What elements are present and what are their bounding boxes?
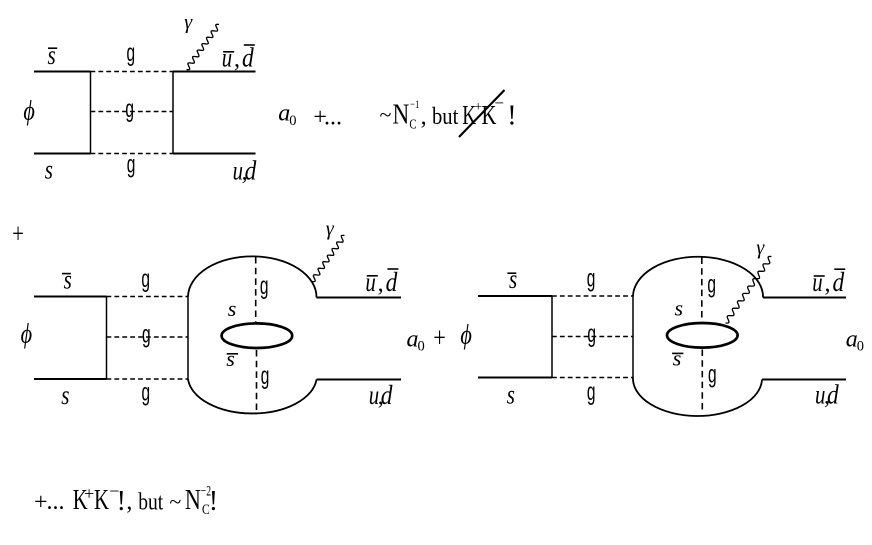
diagram3 label ubar dbar	[812, 267, 845, 297]
svg-text:N: N	[185, 484, 201, 516]
svg-text:g: g	[127, 151, 136, 179]
svg-text:γ: γ	[326, 218, 335, 240]
text plus dots after diagram1 a0	[313, 104, 342, 130]
svg-text:g: g	[587, 378, 596, 406]
diagram3 photon gamma wavy line from s sbar loop	[726, 256, 772, 323]
svg-text:d: d	[833, 267, 845, 297]
svg-text:s: s	[675, 296, 684, 321]
diagram3 quark line s incoming	[478, 377, 552, 379]
svg-text:d: d	[242, 43, 254, 73]
diagram3 gluon g3 dashed	[552, 377, 633, 379]
diagram1 label a0	[278, 101, 296, 129]
diagram1 label ubar dbar	[222, 43, 255, 73]
diagram1 quark line s incoming	[34, 153, 91, 155]
diagram3 quark line u d outgoing	[762, 379, 846, 381]
diagram2 label a0	[407, 326, 425, 354]
svg-text:,: ,	[421, 104, 427, 130]
svg-text:but: but	[432, 104, 459, 130]
diagram2 label u d	[369, 380, 393, 410]
svg-text:!: !	[507, 100, 516, 131]
svg-text:ϕ: ϕ	[23, 95, 35, 125]
svg-text:s: s	[228, 296, 237, 321]
svg-text:N: N	[393, 100, 410, 131]
svg-text:s: s	[45, 154, 53, 184]
diagram2 blob top arc	[188, 256, 317, 297]
svg-text:ϕ: ϕ	[460, 320, 472, 350]
svg-text:s: s	[226, 346, 235, 371]
svg-text:~: ~	[380, 102, 392, 127]
svg-text:C: C	[409, 117, 416, 132]
diagram3 label u d	[815, 380, 839, 410]
svg-text:0: 0	[418, 339, 425, 355]
svg-text:s: s	[61, 380, 69, 410]
svg-text:+: +	[34, 489, 48, 515]
diagram1 quark line ubar dbar outgoing	[173, 71, 256, 73]
diagram1 gluon g3 dashed	[91, 153, 174, 155]
diagram2 label sbar inner	[226, 346, 238, 371]
svg-text:g: g	[587, 265, 596, 293]
svg-text:K: K	[94, 484, 109, 516]
svg-text:!: !	[209, 486, 218, 517]
text NC^-1 but K+K- strike	[380, 94, 517, 133]
svg-text:u: u	[365, 267, 375, 297]
diagram3 label sbar	[507, 264, 517, 294]
svg-text:,: ,	[126, 489, 132, 515]
svg-text:g: g	[127, 39, 136, 67]
svg-text:+: +	[433, 323, 446, 354]
diagram2 gluon vertical dashed lower	[256, 350, 258, 415]
svg-text:g: g	[587, 320, 596, 348]
svg-text:...: ...	[324, 104, 342, 130]
svg-text:,: ,	[378, 271, 384, 297]
diagram2 gluon g1 dashed	[107, 296, 189, 298]
diagram2 label ubar dbar	[365, 267, 398, 297]
diagram1 quark line u d outgoing	[173, 153, 256, 155]
bottom text plus dots K+K- but NC^-2	[34, 481, 218, 518]
diagram1 gluon g2 dashed	[91, 111, 174, 113]
svg-text:+: +	[84, 483, 94, 503]
diagram1 a0 vertex vertical wire	[172, 72, 174, 154]
svg-text:+: +	[12, 219, 24, 250]
svg-text:g: g	[707, 271, 716, 299]
svg-text:u: u	[222, 43, 232, 73]
svg-text:~: ~	[169, 489, 181, 514]
diagram2 gluon g3 dashed	[107, 378, 189, 380]
svg-text:,: ,	[234, 47, 240, 73]
diagram2 label sbar	[62, 265, 72, 295]
diagram3 s sbar loop ellipse	[667, 323, 738, 348]
svg-text:s: s	[48, 40, 56, 70]
diagram3 phi vertex vertical wire	[551, 296, 553, 378]
svg-text:s: s	[507, 379, 515, 409]
svg-text:!: !	[117, 486, 126, 517]
svg-text:s: s	[509, 264, 517, 294]
svg-text:ϕ: ϕ	[21, 319, 33, 349]
svg-text:g: g	[142, 321, 151, 349]
diagram3 gluon g1 dashed	[552, 295, 633, 297]
diagram1 label u d	[233, 156, 257, 186]
diagram2 quark line sbar incoming	[34, 296, 107, 298]
diagram2 gluon vertical dashed upper	[255, 257, 257, 322]
svg-text:d: d	[245, 156, 257, 186]
svg-text:d: d	[381, 380, 393, 410]
diagram2 gluon g2 dashed	[107, 336, 189, 338]
svg-text:g: g	[261, 362, 270, 390]
diagram1 phi vertex vertical wire	[90, 72, 92, 154]
diagram1 quark line sbar incoming	[34, 71, 91, 73]
svg-text:γ: γ	[184, 11, 193, 33]
diagram3 gluon vertical dashed upper	[701, 258, 703, 323]
svg-text:g: g	[260, 272, 269, 300]
svg-text:,: ,	[825, 271, 831, 297]
diagram3 label a0	[846, 326, 864, 354]
diagram2 s sbar loop ellipse	[222, 323, 293, 348]
diagram2 blob bottom arc	[188, 379, 317, 413]
diagram3 gluon vertical dashed lower	[701, 350, 703, 414]
diagram3 blob left vertical wire	[632, 296, 634, 378]
svg-text:g: g	[708, 361, 717, 389]
svg-text:g: g	[125, 95, 134, 123]
svg-text:g: g	[142, 379, 151, 407]
svg-text:g: g	[141, 265, 150, 293]
svg-text:but: but	[138, 489, 163, 515]
diagram3 blob top arc	[633, 257, 763, 298]
diagram3 quark line sbar incoming	[478, 295, 552, 297]
diagram3 quark line ubar dbar outgoing	[763, 297, 846, 299]
svg-text:d: d	[386, 267, 398, 297]
diagram2 photon gamma wavy line	[312, 235, 345, 281]
svg-text:0: 0	[289, 113, 296, 129]
diagram2 phi vertex vertical wire	[106, 297, 108, 380]
diagram1 photon gamma wavy line	[187, 24, 220, 69]
diagram2 quark line u d outgoing	[317, 379, 402, 381]
diagram2 quark line s incoming	[34, 378, 107, 380]
diagram2 blob left vertical wire	[187, 297, 189, 380]
svg-text:d: d	[827, 380, 839, 410]
svg-text:u: u	[812, 267, 822, 297]
diagram3 gluon g2 dashed	[552, 336, 633, 338]
svg-text:−1: −1	[410, 97, 419, 111]
svg-text:s: s	[64, 265, 72, 295]
svg-text:γ: γ	[756, 237, 765, 259]
diagram3 label sbar inner	[672, 346, 683, 371]
svg-text:s: s	[673, 346, 682, 371]
svg-text:0: 0	[857, 339, 864, 355]
diagram1 gluon g1 dashed	[91, 71, 174, 73]
diagram3 blob bottom arc	[633, 378, 762, 416]
diagram1 label sbar	[48, 40, 58, 70]
svg-text:...: ...	[47, 489, 65, 515]
diagram2 quark line ubar dbar outgoing	[317, 297, 402, 299]
strike line through K+K-	[459, 90, 505, 137]
